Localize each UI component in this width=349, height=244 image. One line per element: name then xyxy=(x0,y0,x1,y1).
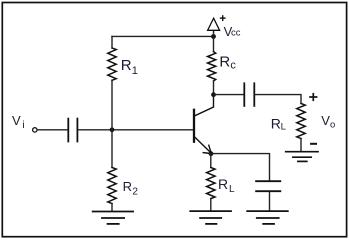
wire emitter resistor to ground xyxy=(210,199,212,211)
junction Vcc node xyxy=(211,34,216,39)
label minus at output xyxy=(310,143,317,145)
wire RL load to ground xyxy=(300,139,302,152)
svg-text:L: L xyxy=(229,184,235,195)
power Vcc symbol triangle xyxy=(208,18,220,30)
label RL load xyxy=(271,116,286,133)
ground (below load RL) xyxy=(286,152,318,162)
svg-text:c: c xyxy=(230,60,236,72)
capacitor output coupling xyxy=(244,83,254,106)
wire base node up to R1 xyxy=(111,80,113,130)
ground (below emitter resistor) xyxy=(190,211,231,224)
wire Vcc node to Vcc symbol xyxy=(213,31,215,37)
wire base node down to R2 xyxy=(111,130,113,168)
svg-text:L: L xyxy=(281,121,286,132)
wire Rc to collector node xyxy=(213,81,215,95)
junction collector node xyxy=(211,92,216,97)
label R2 xyxy=(123,179,139,197)
junction emitter node xyxy=(209,151,214,156)
label + at Vcc xyxy=(220,15,226,21)
junction base node xyxy=(110,127,115,132)
ground (below bypass capacitor) xyxy=(247,211,288,224)
resistor R1 xyxy=(108,48,116,80)
label Vcc xyxy=(224,24,241,39)
capacitor input coupling xyxy=(68,119,77,142)
label R1 xyxy=(121,57,138,77)
label Vo xyxy=(321,113,335,131)
ground (below R2) xyxy=(93,212,133,224)
svg-text:V: V xyxy=(321,113,330,128)
wire output capacitor to load RL xyxy=(255,95,301,104)
svg-text:R: R xyxy=(121,57,132,74)
svg-text:1: 1 xyxy=(132,65,138,77)
svg-text:i: i xyxy=(22,119,24,131)
wire collector node to output capacitor xyxy=(214,94,244,96)
transistor Q1 base bar xyxy=(193,110,195,142)
wire input terminal to coupling capacitor xyxy=(37,129,67,131)
svg-text:R: R xyxy=(218,176,228,192)
wire top rail xyxy=(112,35,214,37)
wire R1 to top rail xyxy=(111,36,113,48)
wire capacitor to base node xyxy=(78,129,112,131)
resistor R2 xyxy=(108,168,116,204)
wire R2 to ground xyxy=(111,204,113,211)
wire Vcc node down to Rc xyxy=(213,36,215,51)
label RL emitter xyxy=(218,176,235,195)
svg-text:V: V xyxy=(12,113,21,128)
node Vi input terminal xyxy=(33,128,37,132)
svg-text:R: R xyxy=(219,54,230,71)
wire emitter node to bypass capacitor xyxy=(211,154,270,181)
transistor Q1 emitter lead xyxy=(195,137,211,153)
capacitor emitter bypass xyxy=(256,181,280,191)
svg-text:o: o xyxy=(330,120,335,131)
wire bypass capacitor to ground xyxy=(269,192,271,210)
label + at output xyxy=(309,93,317,101)
label Rc xyxy=(219,54,236,72)
svg-text:2: 2 xyxy=(132,186,138,197)
transistor Q1 collector lead xyxy=(195,96,214,116)
resistor RL load xyxy=(297,104,305,139)
svg-text:R: R xyxy=(123,179,132,194)
transistor Q1 emitter arrowhead xyxy=(203,145,211,153)
wire emitter node to emitter resistor xyxy=(210,154,212,168)
resistor RL emitter xyxy=(207,168,215,199)
svg-text:R: R xyxy=(271,116,281,132)
svg-text:cc: cc xyxy=(231,28,241,39)
wire base node to transistor base xyxy=(112,129,193,131)
label Vi xyxy=(12,113,25,131)
resistor Rc xyxy=(208,52,216,81)
